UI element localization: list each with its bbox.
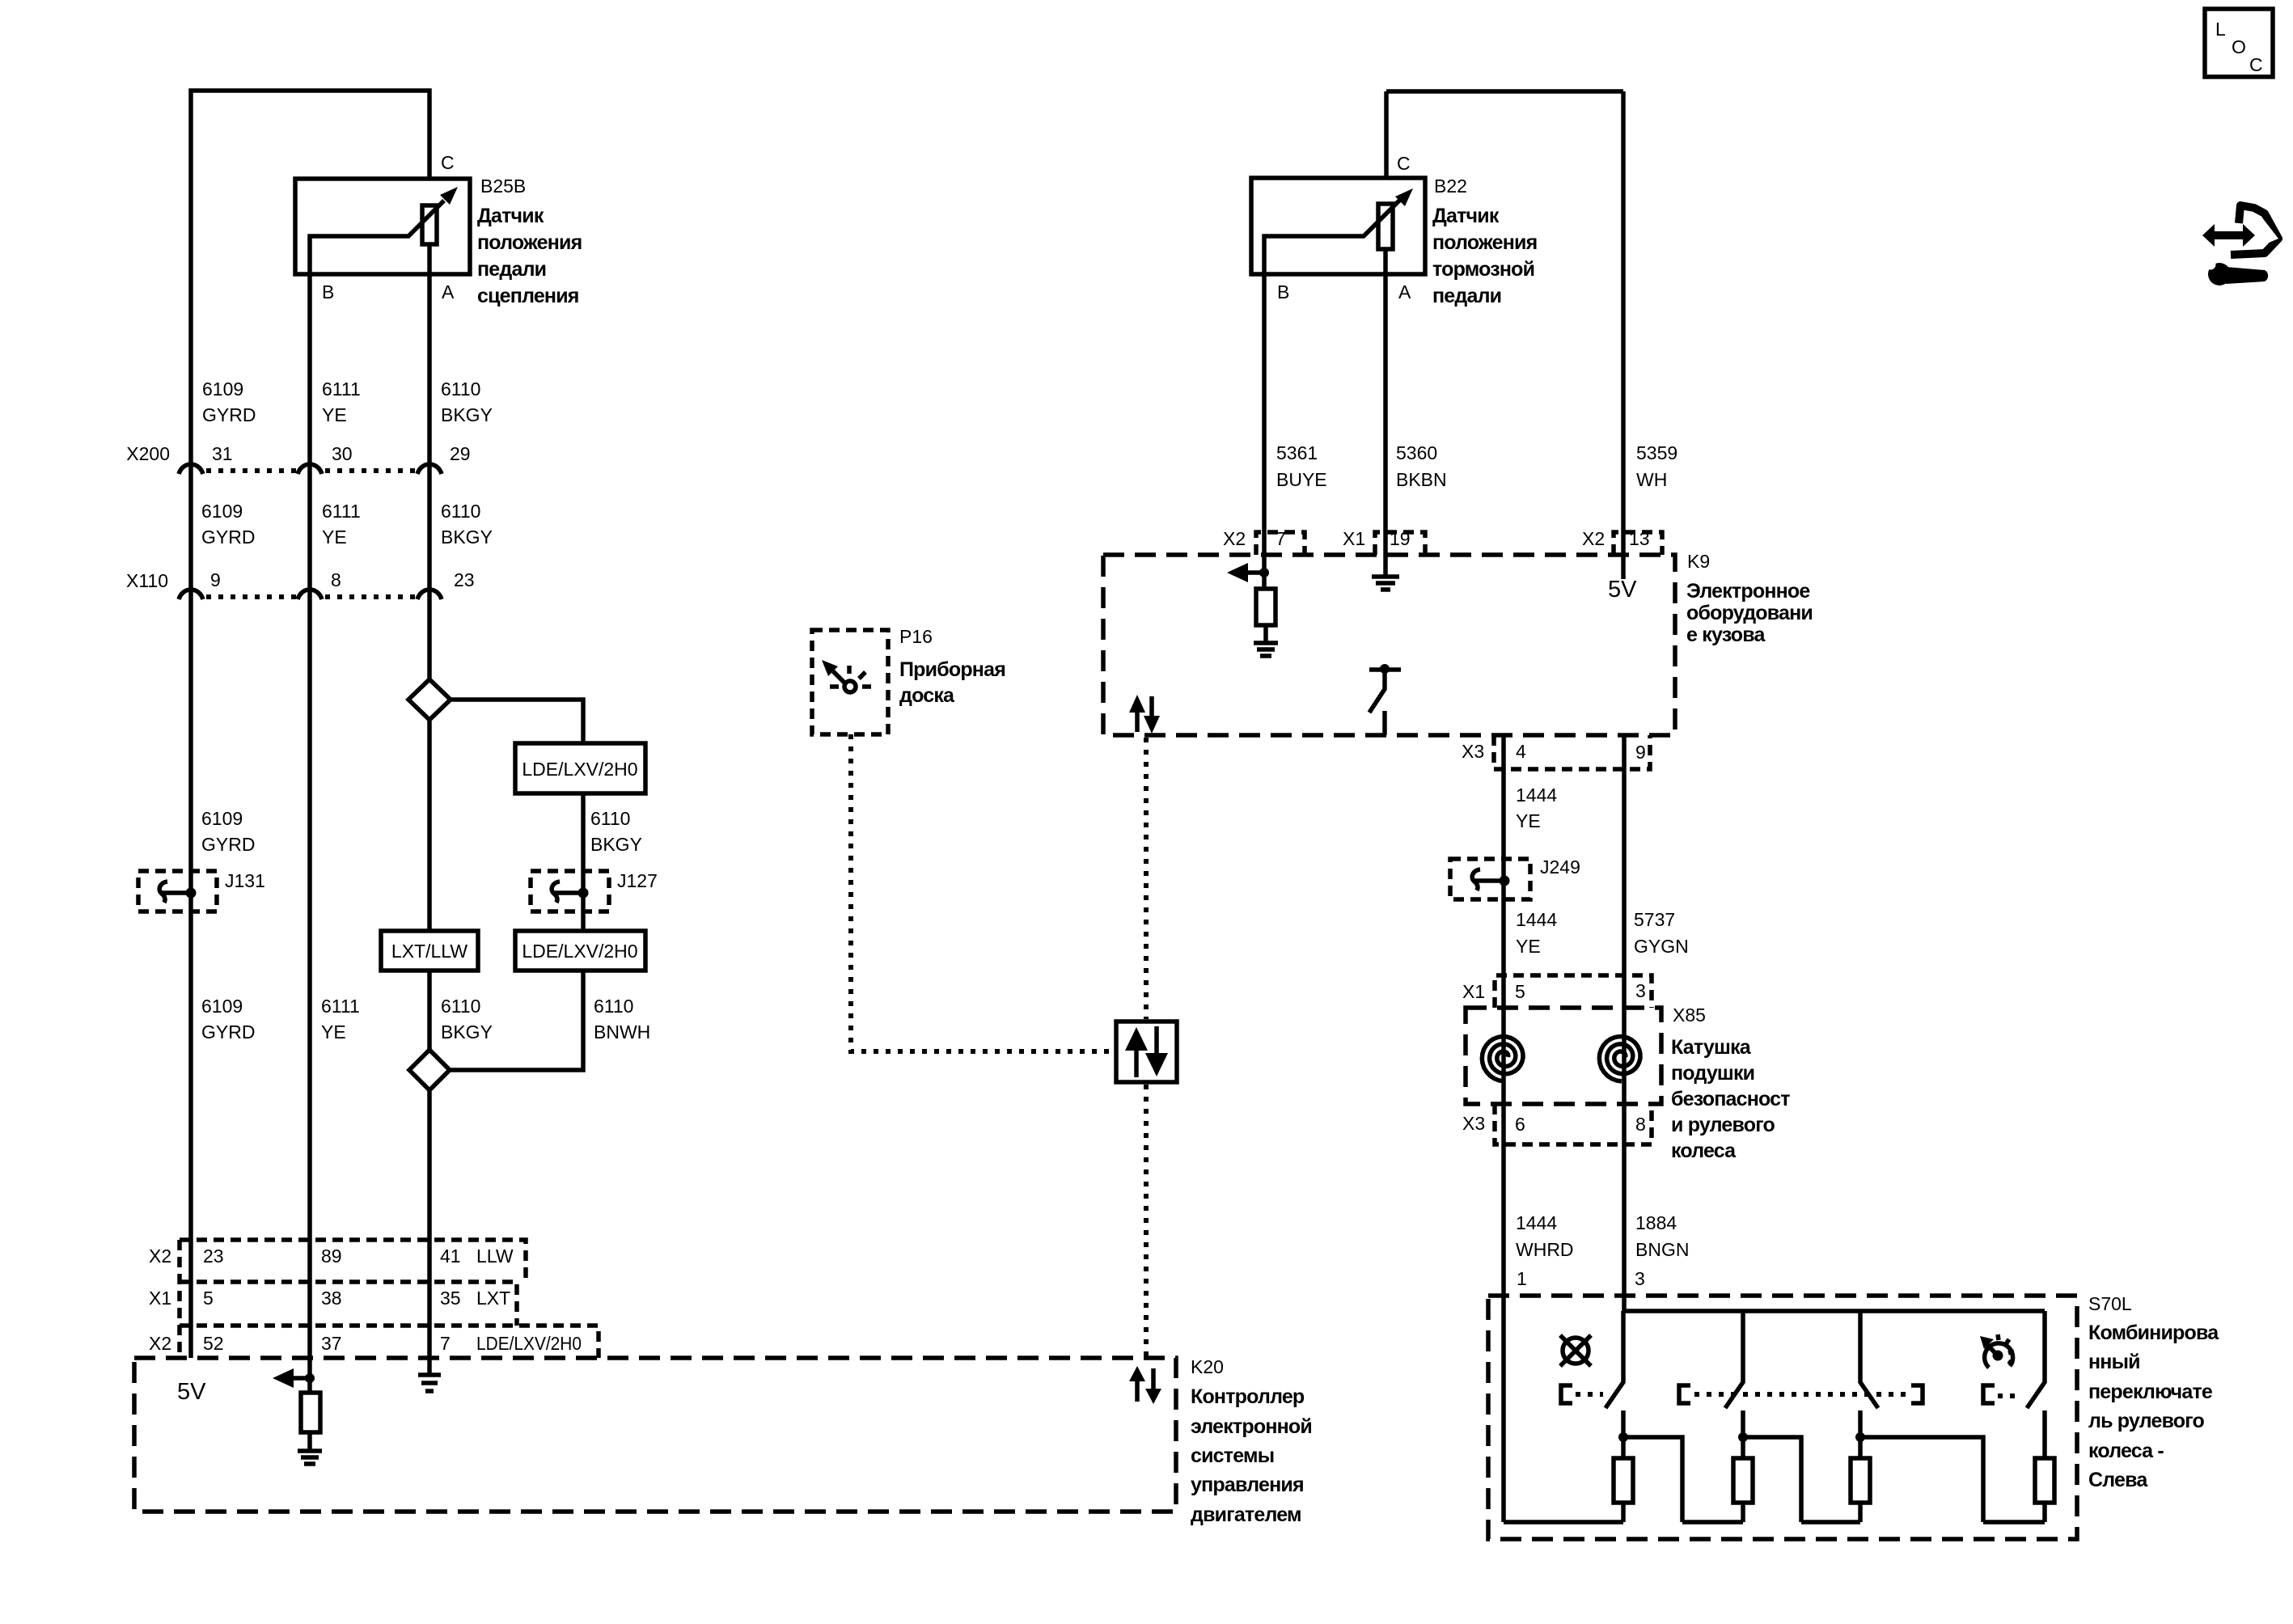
ground symbol on BKBN inside K9 [1372, 577, 1399, 590]
wiper arrowhead B22 [1395, 188, 1413, 206]
svg-text:6109: 6109 [202, 379, 243, 400]
svg-text:ль рулевого: ль рулевого [2088, 1410, 2205, 1432]
resistor inside K9 on BUYE [1262, 573, 1267, 589]
splice J127 symbol [552, 882, 560, 903]
S70L contact bracket 1 [1561, 1385, 1572, 1403]
wire 6110 BNWH vertical [581, 793, 586, 931]
option box LXT/LLW [381, 931, 478, 971]
svg-text:52: 52 [203, 1333, 224, 1354]
instrument panel P16 dashed box [812, 630, 888, 734]
svg-text:X110: X110 [126, 570, 168, 591]
svg-text:8: 8 [331, 569, 341, 590]
S70L lamp symbol [1563, 1338, 1589, 1364]
svg-text:BNWH: BNWH [594, 1021, 650, 1042]
svg-text:6110: 6110 [594, 996, 633, 1017]
pin row X3 (4 9) of K9 [1494, 735, 1650, 769]
option box LDE/LXV/2H0 lower [515, 931, 645, 971]
option box LDE/LXV/2H0 upper [515, 743, 645, 793]
svg-text:подушки: подушки [1671, 1062, 1754, 1085]
svg-text:LLW: LLW [476, 1245, 514, 1267]
svg-text:5359: 5359 [1636, 442, 1677, 463]
svg-text:5360: 5360 [1396, 442, 1437, 463]
wire pin B of B25B with wiper [310, 201, 444, 274]
splice node diamond2 on 6110 [409, 1050, 450, 1090]
svg-text:переключате: переключате [2088, 1381, 2213, 1403]
svg-text:BUYE: BUYE [1276, 469, 1327, 490]
svg-text:доска: доска [899, 684, 955, 707]
S70L switch 4 [2027, 1311, 2045, 1408]
svg-text:7: 7 [1276, 528, 1286, 549]
svg-text:1: 1 [1517, 1268, 1527, 1289]
S70L switch 1 [1606, 1311, 1623, 1408]
svg-text:K9: K9 [1687, 551, 1710, 572]
svg-text:двигателем: двигателем [1191, 1503, 1301, 1526]
svg-text:P16: P16 [899, 626, 933, 647]
S70L bottom bus segments [1504, 1520, 1623, 1525]
svg-text:6110: 6110 [441, 996, 480, 1017]
connector X110 dotted separators [206, 594, 296, 599]
S70L contact bracket 3 closing [1911, 1385, 1923, 1403]
splice J127 dashed box [531, 871, 609, 911]
bidirectional signal arrows inside K9 [1135, 710, 1140, 732]
svg-text:5V: 5V [1608, 577, 1637, 603]
wire 5361 BUYE vertical [1262, 274, 1267, 573]
connector X200 bumps on wires [179, 464, 203, 474]
svg-text:LDE/LXV/2H0: LDE/LXV/2H0 [522, 759, 637, 780]
svg-text:37: 37 [321, 1333, 342, 1354]
svg-text:X1: X1 [1462, 981, 1485, 1002]
S70L switch 3 [1860, 1311, 1878, 1408]
P16 gauge symbol [822, 660, 871, 692]
svg-text:6110: 6110 [441, 379, 480, 400]
pin row X3 (6 8) of X85 [1495, 1104, 1652, 1144]
svg-text:B22: B22 [1434, 176, 1467, 197]
coil spiral right [1599, 1037, 1640, 1081]
svg-text:J249: J249 [1540, 856, 1580, 878]
svg-text:35: 35 [440, 1288, 461, 1309]
S70L contact bracket 4 [1983, 1385, 1995, 1403]
svg-text:YE: YE [1516, 936, 1541, 957]
svg-text:C: C [1397, 153, 1411, 174]
svg-text:сцепления: сцепления [477, 285, 579, 307]
svg-text:A: A [1398, 281, 1411, 302]
wire loop top of B22 [1386, 89, 1623, 94]
signal arrow at BUYE pin inside K9 [1227, 563, 1248, 582]
splice node diamond on 6110 [408, 679, 451, 720]
svg-text:GYRD: GYRD [201, 527, 255, 548]
coil X85 dashed box [1466, 1008, 1661, 1104]
svg-text:1444: 1444 [1516, 1212, 1557, 1233]
junction dot on BUYE [1259, 568, 1269, 577]
svg-text:5737: 5737 [1634, 909, 1675, 930]
splice J249 symbol [1472, 869, 1480, 890]
sensor B25B box [295, 179, 470, 274]
svg-text:Датчик: Датчик [1432, 205, 1500, 227]
wiper arrowhead B25B [440, 187, 458, 205]
diagnostic icon: bent arrow [2231, 205, 2278, 255]
switch inside K9 [1380, 664, 1390, 674]
svg-text:B: B [322, 281, 334, 302]
svg-text:41: 41 [440, 1245, 461, 1267]
wire 6109 GYRD left vertical and loop top [191, 91, 429, 1358]
svg-text:BKBN: BKBN [1396, 469, 1447, 490]
svg-text:19: 19 [1390, 528, 1411, 549]
splice J131 dashed box [138, 871, 217, 911]
connector X200 dotted separators [206, 468, 296, 473]
svg-text:1444: 1444 [1516, 909, 1557, 930]
svg-text:X2: X2 [149, 1245, 171, 1267]
svg-text:GYRD: GYRD [201, 1021, 255, 1042]
wire pin A of B25B [427, 244, 432, 679]
svg-text:тормозной: тормозной [1432, 258, 1534, 281]
potentiometer element of B22 [1378, 204, 1393, 249]
diagnostic icon: double arrow [2202, 224, 2255, 247]
svg-text:Катушка: Катушка [1671, 1036, 1752, 1059]
svg-text:X3: X3 [1462, 741, 1484, 762]
diagnostic icon: wrench [2208, 263, 2231, 285]
dotted signal wire from K9 to arrow box [1144, 738, 1149, 1019]
svg-text:оборудовани: оборудовани [1686, 602, 1813, 624]
svg-text:GYRD: GYRD [202, 404, 256, 425]
svg-text:X1: X1 [149, 1288, 171, 1309]
svg-text:9: 9 [1635, 742, 1646, 763]
resistor inside K20 on YE [307, 1378, 312, 1393]
svg-text:5361: 5361 [1276, 442, 1318, 463]
pin row X1 (5 3) of X85 [1495, 975, 1652, 1008]
svg-text:6109: 6109 [201, 808, 243, 829]
svg-text:6110: 6110 [441, 501, 480, 522]
svg-text:нный: нный [2088, 1351, 2140, 1373]
svg-text:GYGN: GYGN [1634, 936, 1689, 957]
svg-text:X3: X3 [1462, 1113, 1485, 1134]
svg-text:23: 23 [454, 569, 475, 590]
svg-text:Датчик: Датчик [477, 205, 544, 227]
svg-text:5: 5 [203, 1288, 214, 1309]
bidirectional arrow box [1116, 1021, 1177, 1082]
svg-text:J131: J131 [225, 870, 265, 891]
splice J131 symbol [159, 882, 167, 903]
svg-text:WHRD: WHRD [1516, 1239, 1574, 1260]
svg-text:BNGN: BNGN [1635, 1239, 1689, 1260]
svg-text:X85: X85 [1673, 1004, 1706, 1026]
svg-text:6109: 6109 [201, 996, 243, 1017]
svg-text:и рулевого: и рулевого [1671, 1114, 1775, 1136]
svg-text:C: C [441, 152, 455, 173]
svg-text:B25B: B25B [480, 176, 526, 197]
svg-text:6111: 6111 [322, 501, 361, 522]
dotted signal wire from arrow box down to K20 [1144, 1085, 1149, 1358]
svg-text:колеса -: колеса - [2088, 1440, 2164, 1462]
splice J249 dashed box [1450, 859, 1530, 899]
svg-text:положения: положения [1432, 231, 1537, 254]
LOC legend box [2205, 9, 2273, 77]
svg-text:WH: WH [1636, 469, 1667, 490]
svg-text:BKGY: BKGY [441, 527, 493, 548]
ground symbol under YE resistor [298, 1451, 322, 1464]
sensor B22 box [1251, 178, 1425, 274]
svg-text:B: B [1277, 281, 1289, 302]
svg-text:6111: 6111 [321, 996, 360, 1017]
connector row X1 (5 38 35 LXT) dashed [180, 1282, 517, 1326]
svg-text:BKGY: BKGY [590, 834, 642, 855]
connector row X2 (23 89 41 LLW) dashed [180, 1240, 526, 1358]
wire 6110 BKGY into K20 [427, 1090, 432, 1375]
svg-text:YE: YE [1516, 810, 1541, 831]
dotted signal wire from P16 to arrow box [851, 734, 1114, 1051]
svg-text:X2: X2 [1223, 528, 1246, 549]
svg-text:LXT: LXT [476, 1288, 510, 1309]
wire pin C of B22 [1384, 91, 1389, 204]
svg-text:L: L [2215, 19, 2226, 40]
connector row X2 (52 37 7 LDE/LXV/2H0) dashed [180, 1326, 599, 1358]
svg-text:6110: 6110 [590, 808, 630, 829]
svg-text:Слева: Слева [2088, 1469, 2148, 1491]
coil spiral left [1482, 1037, 1523, 1081]
svg-text:колеса: колеса [1671, 1140, 1737, 1162]
S70L resistor 4 [2035, 1458, 2054, 1503]
svg-text:YE: YE [322, 404, 347, 425]
svg-text:YE: YE [322, 527, 347, 548]
svg-text:X2: X2 [1582, 528, 1605, 549]
svg-text:7: 7 [440, 1333, 451, 1354]
svg-text:системы: системы [1191, 1444, 1274, 1467]
svg-text:X200: X200 [126, 443, 170, 464]
wire 6111 YE vertical from pin B [307, 274, 312, 1378]
svg-text:3: 3 [1635, 980, 1646, 1001]
svg-text:безопасност: безопасност [1671, 1088, 1790, 1110]
S70L switch 2 [1725, 1311, 1743, 1408]
svg-text:38: 38 [321, 1288, 342, 1309]
svg-text:1884: 1884 [1635, 1212, 1677, 1233]
switch S70L dashed box [1488, 1296, 2077, 1539]
svg-text:4: 4 [1516, 741, 1526, 762]
svg-text:A: A [442, 281, 455, 302]
svg-text:13: 13 [1629, 528, 1650, 549]
svg-text:педали: педали [477, 258, 546, 281]
wire 5737 GYGN / 1884 BNGN from K9 pin 9 down to S70L [1622, 735, 1627, 1311]
svg-text:LDE/LXV/2H0: LDE/LXV/2H0 [522, 941, 637, 962]
svg-text:электронной: электронной [1191, 1415, 1312, 1438]
svg-text:5V: 5V [177, 1379, 206, 1405]
svg-text:23: 23 [203, 1245, 224, 1267]
svg-text:30: 30 [332, 443, 353, 464]
S70L junction dots and jogs [1618, 1432, 1628, 1442]
svg-text:K20: K20 [1191, 1356, 1224, 1377]
svg-text:89: 89 [321, 1245, 342, 1267]
module K9 dashed box [1103, 555, 1675, 735]
ground symbol on BKGY inside K20 [418, 1375, 441, 1391]
svg-text:S70L: S70L [2088, 1293, 2132, 1314]
svg-text:Электронное: Электронное [1686, 580, 1810, 603]
S70L resistor 3 [1851, 1458, 1870, 1503]
svg-text:X2: X2 [149, 1333, 171, 1354]
svg-text:BKGY: BKGY [441, 1021, 493, 1042]
wire 6110 BKGY mid vertical [427, 720, 432, 931]
S70L resistor 1 [1614, 1458, 1633, 1503]
svg-text:29: 29 [450, 443, 471, 464]
wire from LDE2 box down and left to diamond2 [450, 971, 583, 1070]
svg-text:LXT/LLW: LXT/LLW [391, 941, 467, 962]
svg-text:YE: YE [321, 1021, 346, 1042]
wire 1444 YE / 1444 WHRD from K9 pin 4 down to S70L [1501, 735, 1506, 1522]
svg-text:BKGY: BKGY [441, 404, 493, 425]
pin box 7 of K9 [1256, 532, 1305, 555]
svg-text:6111: 6111 [322, 379, 361, 400]
svg-text:е кузова: е кузова [1686, 624, 1766, 646]
controller K20 dashed box [134, 1358, 1176, 1512]
svg-text:6109: 6109 [201, 501, 243, 522]
svg-text:6: 6 [1515, 1114, 1525, 1135]
svg-text:LDE/LXV/2H0: LDE/LXV/2H0 [476, 1333, 582, 1354]
branch wire from diamond to LDE box [451, 700, 583, 743]
svg-text:X1: X1 [1343, 528, 1365, 549]
svg-text:O: O [2232, 36, 2246, 57]
svg-text:5: 5 [1515, 981, 1525, 1002]
svg-text:9: 9 [210, 569, 221, 590]
connector X110 bumps on wires [179, 590, 203, 599]
pin box 19 of K9 [1375, 532, 1425, 555]
wire from LXT box down to diamond2 [427, 971, 432, 1050]
svg-text:8: 8 [1635, 1114, 1646, 1135]
wire pin A of B22 [1383, 249, 1388, 577]
svg-text:положения: положения [477, 231, 582, 254]
potentiometer element of B25B [422, 205, 437, 244]
wire pin B of B22 with wiper [1264, 200, 1400, 274]
S70L internal top bus [1624, 1309, 2045, 1313]
svg-text:1444: 1444 [1516, 785, 1557, 806]
svg-text:Комбинирова: Комбинирова [2088, 1322, 2219, 1344]
signal arrow at YE pin inside K20 [273, 1368, 294, 1388]
svg-text:3: 3 [1635, 1268, 1645, 1289]
svg-text:Контроллер: Контроллер [1191, 1385, 1305, 1408]
svg-text:педали: педали [1432, 285, 1501, 307]
svg-text:J127: J127 [617, 870, 658, 891]
svg-text:C: C [2249, 54, 2263, 75]
S70L resistor 2 [1733, 1458, 1753, 1503]
ground symbol under BUYE resistor [1254, 643, 1278, 656]
svg-text:31: 31 [212, 443, 233, 464]
S70L contact bracket 2 [1679, 1385, 1690, 1403]
pin box 13 of K9 [1614, 532, 1662, 555]
junction dot on YE [305, 1373, 315, 1383]
svg-text:GYRD: GYRD [201, 834, 255, 855]
svg-text:управления: управления [1191, 1474, 1304, 1496]
S70L gauge symbol [1980, 1334, 2014, 1368]
wire 5359 WH right vertical [1621, 91, 1626, 579]
svg-text:Приборная: Приборная [899, 658, 1005, 681]
bidirectional signal arrows inside K20 [1135, 1378, 1140, 1402]
